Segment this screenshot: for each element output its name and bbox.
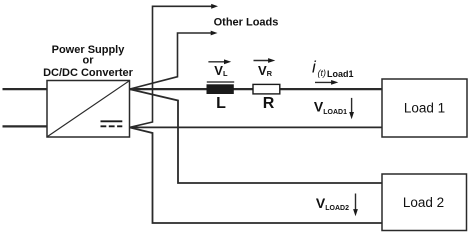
resistor R xyxy=(253,84,280,94)
dc symbol solid line xyxy=(101,120,123,122)
label: i_(t)Load1 xyxy=(312,58,354,80)
svg-text:VLOAD1: VLOAD1 xyxy=(314,99,347,116)
svg-text:VR: VR xyxy=(258,63,273,78)
svg-text:L: L xyxy=(216,95,226,112)
label: Power Supply or DC/DC Converter xyxy=(43,44,134,79)
arrow: V_LOAD1 (down) xyxy=(349,98,354,119)
wire: Load 2 return (from node F2) xyxy=(130,127,383,223)
arrow: V_LOAD2 (down) xyxy=(353,194,358,217)
svg-text:(t): (t) xyxy=(318,68,327,78)
svg-text:Load1: Load1 xyxy=(327,69,354,79)
svg-text:R: R xyxy=(263,95,275,112)
svg-text:Other Loads: Other Loads xyxy=(214,17,279,29)
power supply U1 box xyxy=(47,81,130,138)
power supply diagonal xyxy=(48,81,130,137)
dc symbol dashed line xyxy=(101,125,123,127)
svg-text:or: or xyxy=(83,55,95,67)
wire: input top xyxy=(3,88,48,90)
wire: input bottom xyxy=(3,125,48,127)
svg-text:DC/DC Converter: DC/DC Converter xyxy=(43,67,134,79)
svg-text:i: i xyxy=(312,58,317,77)
wire+arrow: Other Loads branch 1 (from node F2) xyxy=(130,4,219,128)
wire: return rail node F2 to Load 1 xyxy=(130,126,383,128)
arrow: i_(t)Load1 current direction xyxy=(315,80,338,85)
svg-text:VLOAD2: VLOAD2 xyxy=(316,195,349,212)
load block Load 1 xyxy=(382,79,467,137)
arrow: V_R reference xyxy=(254,58,276,63)
svg-text:VL: VL xyxy=(214,63,228,78)
load block Load 2 xyxy=(382,174,467,231)
wire: Load 2 feed (from node F1) xyxy=(130,89,383,183)
wire: main rail node F1 to Load 1 xyxy=(130,88,383,90)
inductor L xyxy=(207,82,235,94)
svg-text:Load 2: Load 2 xyxy=(403,195,444,210)
wire+arrow: Other Loads branch 2 (from node F1) xyxy=(130,31,218,90)
svg-text:Load 1: Load 1 xyxy=(404,101,445,116)
arrow: V_L reference xyxy=(208,59,231,64)
